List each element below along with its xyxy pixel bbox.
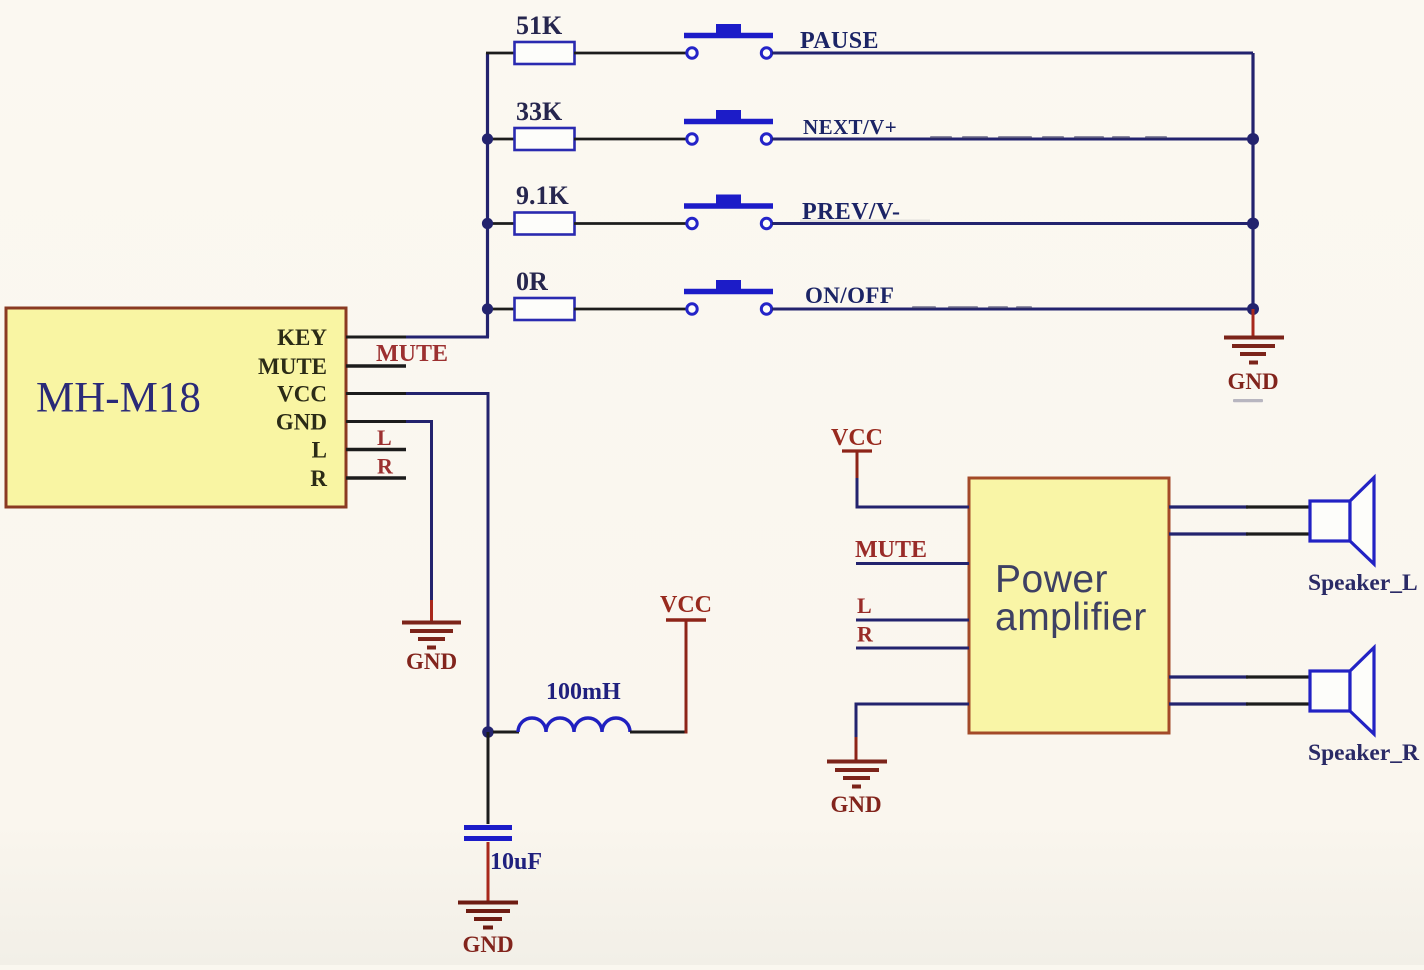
svg-text:amplifier: amplifier bbox=[995, 596, 1147, 639]
svg-text:MUTE: MUTE bbox=[376, 341, 448, 367]
wire VCC to vertical bbox=[406, 394, 488, 733]
power VCC2 symbol bbox=[842, 449, 872, 452]
svg-text:KEY: KEY bbox=[277, 325, 327, 350]
wire MUTE pin stub bbox=[346, 364, 406, 368]
svg-text:R: R bbox=[310, 466, 327, 491]
wire L amp bbox=[856, 619, 969, 622]
IC U2 power amplifier box bbox=[969, 478, 1169, 733]
svg-text:PAUSE: PAUSE bbox=[800, 28, 879, 54]
svg-text:51K: 51K bbox=[516, 11, 563, 40]
svg-text:VCC: VCC bbox=[831, 425, 883, 451]
svg-text:Speaker_L: Speaker_L bbox=[1308, 570, 1418, 596]
resistor R1 51K bbox=[515, 42, 575, 64]
svg-text:VCC: VCC bbox=[660, 592, 712, 618]
watermark smudge row4 bbox=[912, 306, 1032, 309]
capacitor C1 10uF bbox=[464, 828, 512, 839]
wire S1 to right bus bbox=[772, 52, 1253, 55]
wire speaker R bottom bbox=[1169, 702, 1310, 705]
wire row4 bus to resistor R4 bbox=[486, 308, 515, 311]
wire red to ground G2 bbox=[430, 600, 433, 621]
svg-text:33K: 33K bbox=[516, 97, 563, 126]
svg-text:10uF: 10uF bbox=[490, 849, 542, 875]
wire R4 to switch S4 bbox=[574, 308, 687, 311]
switch S2 NEXT bbox=[684, 110, 773, 144]
wire R1 to switch S1 bbox=[574, 52, 687, 55]
svg-text:GND: GND bbox=[830, 792, 881, 817]
svg-text:MUTE: MUTE bbox=[258, 354, 327, 379]
wire right bus vertical bbox=[1251, 53, 1254, 309]
junction left bus row2 bbox=[482, 133, 493, 144]
svg-text:NEXT/V+: NEXT/V+ bbox=[803, 115, 897, 139]
wire VCC1 vertical bbox=[685, 621, 688, 734]
wire VCC2 red drop bbox=[856, 452, 859, 478]
wire red stub to ground G1 bbox=[1252, 309, 1255, 336]
wire row3 bus to resistor R3 bbox=[486, 222, 515, 225]
wire GND down bbox=[406, 422, 432, 601]
wire R3 to switch S3 bbox=[574, 222, 687, 225]
svg-text:L: L bbox=[377, 425, 392, 450]
IC U1 MH-M18 box bbox=[6, 308, 346, 507]
svg-text:L: L bbox=[312, 438, 327, 463]
svg-text:GND: GND bbox=[406, 649, 457, 674]
speaker LS1 bbox=[1310, 478, 1374, 565]
svg-text:R: R bbox=[377, 454, 394, 479]
wire GND pin stub bbox=[346, 420, 406, 423]
svg-text:R: R bbox=[857, 622, 874, 647]
wire S2 to right bus bbox=[772, 138, 1253, 141]
svg-text:MUTE: MUTE bbox=[855, 537, 927, 563]
svg-text:100mH: 100mH bbox=[546, 679, 621, 705]
resistor R3 9.1K bbox=[515, 213, 575, 235]
wire red to ground G4 bbox=[855, 737, 858, 760]
svg-text:Speaker_R: Speaker_R bbox=[1308, 740, 1420, 766]
ground G3 bbox=[458, 903, 518, 928]
wire GND amp bbox=[856, 704, 969, 737]
wire row1 bus to resistor R1 bbox=[486, 52, 515, 55]
svg-text:L: L bbox=[857, 593, 872, 618]
svg-text:GND: GND bbox=[462, 932, 513, 957]
wire VCC pin stub bbox=[346, 392, 406, 395]
wire R amp bbox=[856, 647, 969, 650]
ground G4 bbox=[827, 762, 887, 787]
resistor R2 33K bbox=[515, 128, 575, 150]
wire VCC2 to amp bbox=[857, 478, 969, 507]
watermark smudge below GND right bbox=[1233, 399, 1263, 402]
svg-text:GND: GND bbox=[276, 410, 327, 435]
wire node to inductor L1 bbox=[493, 731, 519, 734]
wire KEY pin stub bbox=[346, 336, 406, 339]
svg-text:MH-M18: MH-M18 bbox=[36, 375, 201, 422]
wire speaker L bottom bbox=[1169, 532, 1310, 535]
wire R pin stub bbox=[346, 476, 406, 480]
wire red capacitor to ground G3 bbox=[487, 842, 490, 901]
svg-text:9.1K: 9.1K bbox=[516, 181, 570, 210]
ground G1 bbox=[1224, 338, 1284, 363]
junction right bus row4 bbox=[1247, 303, 1259, 315]
junction right bus row2 bbox=[1247, 133, 1259, 145]
junction left bus row4 bbox=[482, 303, 493, 314]
resistor R4 0R bbox=[515, 298, 575, 320]
wire speaker L top bbox=[1169, 505, 1310, 508]
ghost underline PREV bbox=[800, 220, 930, 222]
wire inductor to VCC1 bbox=[630, 731, 687, 734]
power VCC1 symbol bbox=[666, 618, 706, 621]
ground G2 bbox=[402, 623, 461, 648]
svg-text:Power: Power bbox=[995, 558, 1108, 601]
wire R2 to switch S2 bbox=[574, 138, 687, 141]
junction left bus row3 bbox=[482, 218, 493, 229]
wire KEY to left bus bbox=[406, 336, 489, 339]
junction right bus row3 bbox=[1247, 218, 1259, 230]
wire speaker R top bbox=[1169, 675, 1310, 678]
wire S4 to right bus bbox=[772, 308, 1253, 311]
switch S1 PAUSE bbox=[684, 24, 773, 58]
wire S3 to right bus bbox=[772, 222, 1253, 225]
wire row2 bus to resistor R2 bbox=[486, 138, 515, 141]
svg-text:GND: GND bbox=[1227, 369, 1278, 394]
wire node to capacitor C1 bbox=[487, 732, 490, 824]
svg-text:ON/OFF: ON/OFF bbox=[805, 283, 894, 308]
wire left key bus vertical bbox=[486, 53, 489, 337]
switch S3 PREV bbox=[684, 195, 773, 229]
watermark smudge row2 bbox=[930, 136, 1167, 139]
inductor L1 100mH bbox=[518, 718, 630, 732]
wire MUTE amp bbox=[856, 562, 969, 565]
wire L pin stub bbox=[346, 448, 406, 452]
svg-text:VCC: VCC bbox=[277, 382, 327, 407]
junction VCC inductor node bbox=[482, 726, 494, 738]
svg-text:0R: 0R bbox=[516, 267, 548, 296]
switch S4 ONOFF bbox=[684, 280, 773, 314]
speaker LS2 bbox=[1310, 648, 1374, 735]
